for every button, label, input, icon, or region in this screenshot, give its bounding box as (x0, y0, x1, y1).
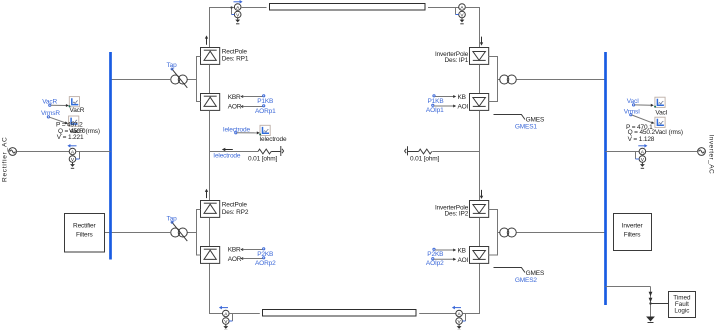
wire source to ammeter left (17, 151, 70, 153)
arrow down at IP1 valve (480, 37, 483, 46)
wire KBR arrow RP1 (240, 95, 265, 98)
wire IP1 junction to transformer (498, 79, 501, 81)
arrow up at RP2 valve (205, 189, 208, 198)
wire inverter bus to ammeter (606, 151, 640, 153)
svg-text:KBR: KBR (228, 94, 241, 101)
svg-text:Ielectrode: Ielectrode (259, 136, 287, 143)
wire AOR arrow RP1 (240, 105, 265, 108)
component Inverter Filters box (614, 214, 652, 251)
wire transformer IP2 to bus (517, 232, 606, 234)
wire GMES1 signal flag (494, 115, 526, 120)
wire top rail right riser (465, 8, 479, 48)
svg-text:P2KB: P2KB (427, 251, 443, 258)
wire IP2 valve junction (489, 210, 498, 256)
transformer IP2 (500, 228, 517, 237)
ammeter top-right (459, 4, 466, 24)
wire VacR meter arrow (49, 104, 69, 107)
blue current arrow mid-right (638, 144, 647, 148)
wire between RP2 valves (209, 218, 211, 247)
svg-text:Logic: Logic (674, 308, 689, 315)
wire blue voltmeter stub bottom-right (462, 320, 465, 322)
wire VacI meter arrow (633, 104, 654, 107)
svg-text:Filters: Filters (624, 232, 642, 239)
svg-text:Des: IP1: Des: IP1 (444, 57, 468, 64)
valve group V2 RP2 (201, 247, 220, 264)
wire bottom rail right riser (462, 264, 479, 314)
arrow down at IP2 valve (480, 190, 483, 199)
source Rectifier_AC (9, 148, 17, 156)
svg-text:AORp2: AORp2 (255, 260, 276, 267)
svg-text:Des: RP2: Des: RP2 (222, 209, 249, 216)
wire electrode branch left (210, 151, 259, 153)
wire AOR arrow RP2 (240, 257, 265, 260)
wire AOI arrow IP2 (432, 258, 457, 261)
node tap dot RP2 (171, 221, 173, 223)
transformer IP1 (500, 75, 517, 84)
wire RP1 valve junction (197, 57, 201, 102)
svg-text:Ielectrode: Ielectrode (213, 152, 241, 159)
svg-text:Des: IP2: Des: IP2 (444, 211, 468, 218)
component Rectifier Filters box (65, 214, 105, 253)
valve group V1 RP2 (201, 201, 220, 218)
meter VrmsI (655, 117, 665, 127)
wire AOI arrow IP1 (432, 104, 457, 107)
svg-text:AOR: AOR (228, 256, 242, 263)
wire top rail to line1 (241, 7, 267, 9)
transformer RP1 (171, 75, 188, 84)
wire blue voltmeter stub bottom-left (229, 320, 232, 322)
bus inverter (right blue busbar) (604, 52, 607, 305)
wire VrmsI meter arrow (630, 114, 655, 124)
wire bar to resistor right (408, 151, 419, 153)
meter VrmsR (69, 116, 79, 126)
valve group V1 IP1 (470, 48, 489, 65)
wire line2 to ammeter bottom-right (419, 313, 456, 315)
node meter input dot (259, 133, 261, 135)
wire bottom rail to line2 (229, 313, 260, 315)
wire IP2 junction to transformer (498, 232, 501, 234)
svg-text:VacR: VacR (70, 107, 85, 114)
svg-text:VrmsR: VrmsR (41, 110, 60, 117)
svg-text:V = 1.128: V = 1.128 (628, 136, 655, 143)
svg-text:KB: KB (458, 94, 466, 101)
transmission line T2 (263, 310, 417, 317)
node VacI meter dot (654, 106, 656, 108)
wire ammeter to rectifier bus (76, 151, 111, 153)
svg-text:Tap: Tap (167, 215, 178, 222)
svg-text:Inverter: Inverter (622, 223, 644, 230)
label P Q V readings left (56, 122, 86, 141)
blue current arrow bottom-right (452, 306, 461, 310)
label RectPole RP1 (222, 48, 249, 62)
meter VacI (655, 97, 665, 107)
node tap dot RP1 (171, 68, 173, 70)
svg-text:KB: KB (458, 247, 466, 254)
wire transformer IP1 to bus (517, 79, 606, 81)
wire Ielectrode meter arrow (235, 131, 260, 134)
wire voltmeter bracket bottom-left (232, 314, 234, 322)
wire voltmeter bracket mid-left (79, 152, 81, 160)
tap changer line RP2 (172, 222, 188, 241)
valve group V2 RP1 (201, 94, 220, 111)
wire voltmeter bracket top-right (455, 8, 457, 15)
svg-text:P2KB: P2KB (257, 251, 273, 258)
wire RP1 lower valve to mid node (209, 111, 211, 201)
wire fault riser (650, 287, 652, 317)
wire voltmeter bracket mid-right (635, 152, 637, 160)
wire resistor to electrode bar (271, 151, 280, 153)
ground fault (646, 317, 655, 323)
svg-text:AOIp2: AOIp2 (426, 260, 444, 267)
svg-text:GMES2: GMES2 (515, 277, 538, 284)
wire filters box to transformer RP2 (105, 232, 171, 234)
meter VacR (69, 97, 79, 107)
source Inverter_AC (698, 148, 706, 156)
resistor R electrode left (258, 149, 271, 154)
label P Q V readings right (626, 124, 656, 143)
svg-text:RectPole: RectPole (222, 48, 248, 55)
label RectPole RP2 (222, 202, 249, 216)
component Timed Fault Logic box (669, 292, 696, 318)
valve group V1 RP1 (201, 48, 220, 65)
wire between IP2 valves (479, 218, 481, 247)
node fault junction (649, 302, 651, 304)
wire source to ammeter right (646, 151, 698, 153)
wire transformer to RP2 junction (187, 232, 196, 234)
valve group V1 IP2 (470, 201, 489, 218)
svg-text:V = 1.221: V = 1.221 (57, 134, 84, 141)
wire VrmsR meter arrow (47, 116, 68, 124)
bottom rail left riser wire (210, 264, 223, 314)
valve group V2 IP2 (470, 247, 489, 264)
blue current arrow top rail (234, 0, 243, 4)
ammeter bottom-left (223, 310, 230, 330)
wire voltmeter bracket top-left (231, 8, 233, 15)
wire bus to transformer RP1 (111, 79, 171, 81)
wire IP1 lower valve to mid node (479, 111, 481, 201)
wire RP2 valve junction (197, 210, 201, 256)
wire inverter bus to fault (606, 286, 651, 288)
svg-text:Rectifier: Rectifier (73, 223, 96, 230)
svg-text:VacI (rms): VacI (rms) (655, 129, 683, 136)
svg-text:P1KB: P1KB (428, 98, 444, 105)
wire KB arrow IP1 (433, 95, 456, 98)
svg-text:Inverter_AC: Inverter_AC (708, 135, 715, 175)
wire resistor to IP column (432, 151, 479, 153)
wire blue voltmeter stub top-left (232, 14, 235, 16)
resistor R electrode right (419, 149, 432, 154)
svg-text:P1KB: P1KB (257, 98, 273, 105)
blue current arrow bottom-left (219, 306, 228, 310)
wire IP1 valve junction (489, 57, 498, 102)
svg-text:Tap: Tap (167, 62, 178, 69)
wire between RP1 valves (209, 65, 211, 94)
arrow up at RP1 valve (205, 35, 208, 44)
wire fault to logic box (651, 303, 669, 305)
ammeter bottom-right (456, 310, 463, 330)
ammeter top-left (234, 4, 241, 24)
svg-text:AOI: AOI (458, 103, 469, 110)
svg-text:AORp1: AORp1 (255, 108, 276, 115)
wire KBR arrow RP2 (240, 248, 265, 251)
svg-text:KBR: KBR (228, 247, 241, 254)
ammeter mid-right (639, 148, 646, 168)
electrode terminal bar left (281, 146, 284, 156)
svg-text:AOIp1: AOIp1 (426, 107, 444, 114)
svg-text:Filters: Filters (76, 232, 94, 239)
svg-text:GMES1: GMES1 (515, 124, 538, 131)
wire KB arrow IP2 (433, 248, 456, 251)
svg-text:Q = 450.2: Q = 450.2 (628, 129, 656, 136)
svg-text:Des: RP1: Des: RP1 (222, 56, 249, 63)
arrow current direction electrode (222, 148, 233, 152)
node junction top-left bracket (230, 6, 232, 8)
fault arrows (649, 292, 653, 303)
tap changer line RP1 (172, 69, 188, 88)
bus rectifier (left blue busbar) (109, 52, 112, 260)
svg-text:0.01 [ohm]: 0.01 [ohm] (410, 156, 440, 163)
transformer RP2 (171, 228, 188, 237)
svg-text:RectPole: RectPole (222, 202, 248, 209)
wire blue voltmeter stub mid-right (636, 158, 640, 160)
svg-text:VacI: VacI (655, 109, 667, 116)
node VacR meter dot (69, 105, 71, 107)
svg-text:AOI: AOI (458, 257, 469, 264)
ammeter mid-left (69, 148, 76, 168)
label InverterPole IP1 (435, 51, 469, 64)
wire blue voltmeter stub mid-left (76, 158, 80, 160)
wire GMES2 signal flag (494, 268, 526, 273)
wire top DC rail left riser (210, 8, 235, 48)
electrode terminal bar right (405, 146, 408, 155)
wire blue voltmeter stub top-right (456, 14, 459, 16)
label InverterPole IP2 (435, 204, 469, 217)
wire transformer to RP1 junction (187, 79, 196, 81)
blue current arrow mid-left (67, 144, 76, 148)
valve group V2 IP1 (470, 94, 489, 111)
svg-text:0.01 [ohm]: 0.01 [ohm] (248, 155, 278, 162)
svg-text:Rectifier_AC: Rectifier_AC (2, 137, 9, 182)
wire voltmeter bracket bottom-right (465, 314, 467, 322)
transmission line T1 (270, 4, 426, 11)
wire line1 to ammeter top-right (428, 7, 459, 9)
wire between IP1 valves (479, 65, 481, 94)
meter Ielectrode (260, 125, 270, 135)
svg-text:AOR: AOR (228, 104, 242, 111)
